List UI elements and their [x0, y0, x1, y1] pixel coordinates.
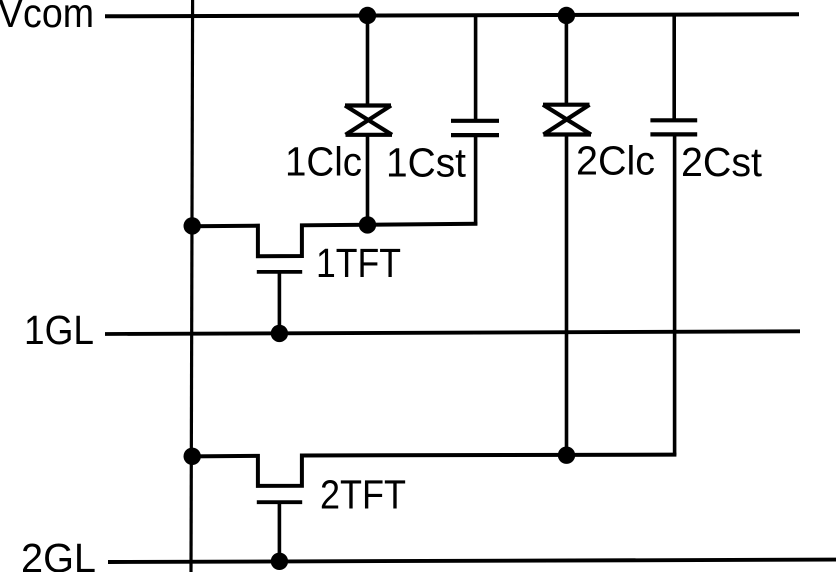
wire 1Cst bottom lead down to pixel-1 node [474, 135, 478, 225]
wire 2Clc top lead from Vcom [565, 16, 569, 107]
svg-text:1TFT: 1TFT [316, 240, 401, 286]
transistor Q2 2TFT gate bar [257, 500, 302, 504]
wire 2Cst bottom lead down crossing 1GL then left to pixel-2 node [673, 134, 677, 455]
svg-text:2TFT: 2TFT [320, 471, 406, 517]
wire 1TFT gate lead down to 1GL [278, 272, 282, 333]
wire Vcom horizontal bus line [105, 14, 799, 16]
capacitor C2lc liquid-crystal cap 2Clc (bowtie symbol) [543, 105, 591, 135]
wire vertical data line [191, 0, 193, 572]
wire 1Clc bottom lead to pixel node [366, 135, 370, 226]
node junction dot data-line/1TFT source [184, 217, 201, 234]
capacitor C1lc liquid-crystal cap 1Clc (bowtie symbol) [345, 106, 392, 135]
wire 1Cst top lead from Vcom [474, 16, 478, 121]
node junction dot pixel-1 storage node [359, 216, 376, 233]
svg-text:1GL: 1GL [24, 307, 94, 353]
wire 1GL gate line [105, 331, 800, 334]
wire 2Cst top lead from Vcom [672, 16, 676, 121]
wire 2TFT gate lead down to 2GL [278, 502, 282, 561]
wire 2Clc bottom lead crossing 1GL down to pixel-2 node [565, 135, 569, 456]
wire 2GL gate line [108, 560, 836, 562]
svg-text:2Cst: 2Cst [681, 139, 763, 185]
transistor Q1 1TFT gate bar [257, 270, 302, 274]
node junction dot data-line/2TFT source [184, 448, 201, 465]
svg-text:1Cst: 1Cst [386, 139, 467, 185]
capacitor C2st storage cap 2Cst (parallel plates) [650, 120, 697, 134]
wire 1Clc top lead from Vcom [366, 16, 370, 108]
node junction dot pixel-2 storage node [558, 447, 575, 464]
node junction dot 2GL/2TFT gate [271, 553, 288, 570]
svg-text:2Clc: 2Clc [576, 138, 655, 184]
svg-text:2GL: 2GL [21, 535, 96, 572]
capacitor C1st storage cap 1Cst (parallel plates) [451, 121, 499, 135]
node junction dot 1GL/1TFT gate [271, 325, 288, 342]
transistor Q1 1TFT source/drain path with channel notch, wire to pixel-1 node [192, 224, 477, 257]
node junction dot Vcom/2Clc [558, 7, 575, 24]
node junction dot Vcom/1Clc [359, 7, 376, 24]
svg-text:Vcom: Vcom [0, 0, 94, 36]
svg-text:1Clc: 1Clc [285, 139, 362, 185]
transistor Q2 2TFT source/drain path with channel notch, wire to pixel-2 node [192, 455, 676, 486]
